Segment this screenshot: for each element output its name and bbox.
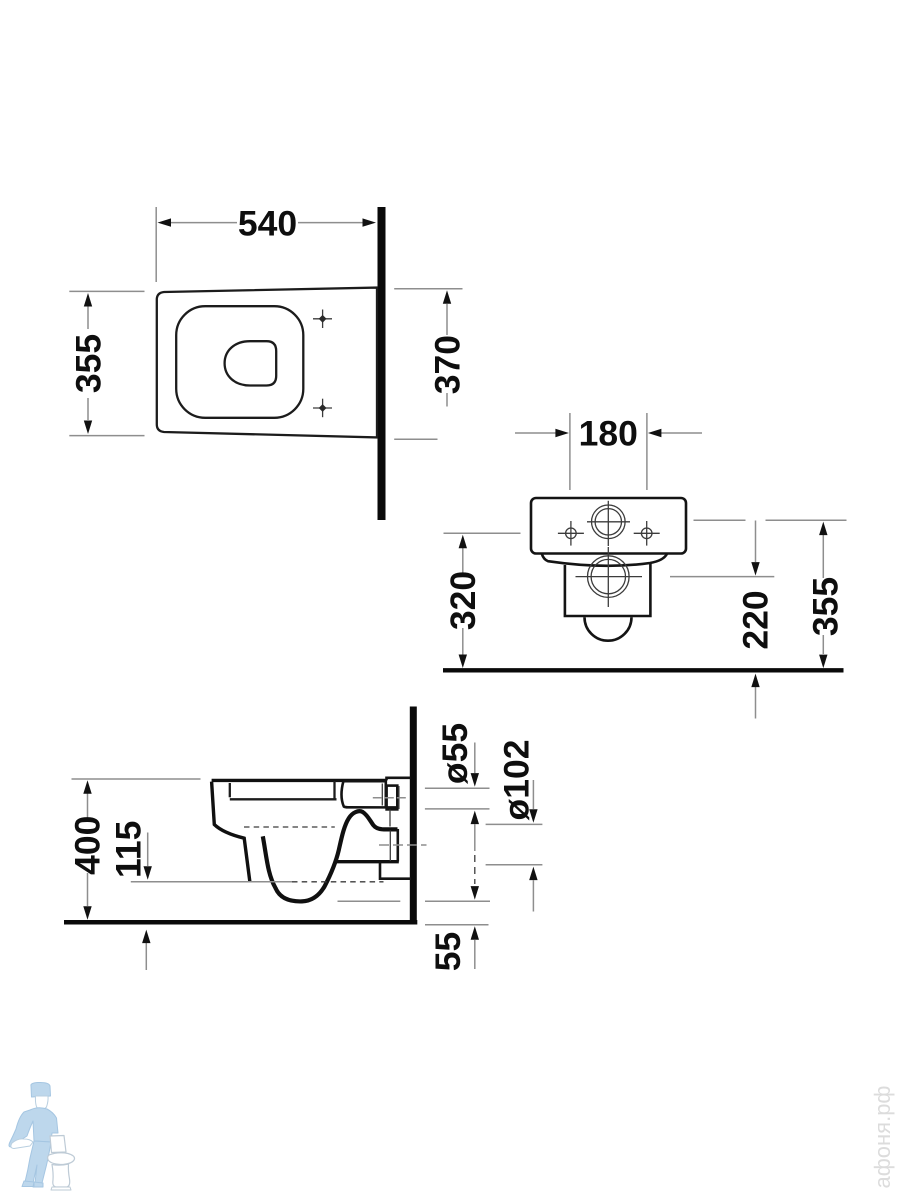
355 extension line (inlet level) [694, 519, 746, 521]
step below drain [380, 862, 411, 879]
dimension 370 extension lines [394, 288, 462, 290]
body lower arc (front) [542, 554, 667, 566]
fixing hole right (front) [634, 521, 660, 546]
dimension 320 extension line [444, 532, 521, 534]
flush block [342, 781, 398, 807]
dimension 540 line and arrows [158, 218, 377, 226]
svg-text:355: 355 [805, 577, 845, 636]
dimension 180 line and arrows [515, 429, 702, 437]
dimension 355 line and arrows [84, 293, 92, 434]
floor arrow below ground (side) [142, 930, 150, 970]
dimension 180 extension lines [569, 413, 571, 490]
body lower box (front) [565, 563, 651, 616]
front face [212, 782, 250, 882]
plumber watermark logo [9, 1082, 75, 1190]
drain centre line [379, 844, 427, 846]
dimension 55 line and arrow [471, 926, 479, 969]
svg-text:370: 370 [427, 335, 467, 394]
bowl opening (plan) [225, 341, 277, 385]
flush pipe centre line [373, 797, 406, 799]
svg-text:320: 320 [443, 571, 483, 630]
toilet outline (plan) [157, 288, 377, 438]
ground line (side) [64, 920, 417, 925]
dimension 400 line and arrows [83, 780, 91, 920]
seat top line [212, 779, 387, 782]
dimension 540 extension line left [155, 207, 157, 282]
dimension ø102 line and arrows [529, 780, 537, 912]
dimension 220 lower arrow below ground [751, 674, 759, 719]
inlet crosshair [587, 521, 630, 523]
dimension 370 line and arrow [443, 290, 451, 406]
svg-text:355: 355 [68, 334, 108, 393]
fixing hole cross top (plan) [313, 310, 332, 329]
svg-text:115: 115 [109, 821, 149, 878]
drain pipe right edge [396, 829, 399, 862]
svg-text:180: 180 [579, 413, 638, 453]
mounting top line at wall [387, 778, 411, 781]
drain outlet circle (front) [588, 556, 630, 598]
body upper box (front) [531, 498, 686, 554]
svg-text:ø55: ø55 [435, 723, 475, 784]
inner bowl and weir [263, 811, 398, 901]
flush pipe stub (ø55) [381, 784, 383, 806]
drain pipe bottom [337, 860, 399, 863]
water dashed line [244, 826, 335, 828]
dimension ø55 extension lines [425, 787, 490, 789]
fixing hole cross bottom (plan) [313, 399, 332, 418]
fixing hole left (front) [558, 521, 584, 546]
rim back joint [333, 781, 335, 799]
svg-text:400: 400 [68, 816, 108, 875]
water inlet circle (front) [592, 505, 626, 539]
svg-text:афоня.рф: афоня.рф [870, 1085, 895, 1188]
drain vertical inner thin upper [389, 810, 391, 827]
dimension 220 line upper arrow [751, 521, 759, 576]
seat outline (plan) [176, 306, 303, 418]
ground line (front) [443, 668, 844, 672]
dimension ø102 extension lines [486, 823, 543, 825]
svg-text:540: 540 [238, 204, 297, 244]
outlet crosshair [576, 576, 643, 578]
svg-text:55: 55 [428, 932, 468, 972]
ceramic bottom line 55 reference [338, 900, 401, 902]
inner rim lines [229, 783, 231, 797]
flush pipe inner line [398, 786, 400, 809]
wall line (plan) [378, 207, 386, 520]
dimension 355 extension lines left view [69, 290, 144, 292]
drain pipe inner line [389, 831, 391, 862]
drain centre reference line right [670, 576, 774, 578]
floor reference right of wall [425, 924, 489, 926]
dimension ø55 line and arrows [471, 743, 479, 900]
wall line (side) [410, 707, 417, 925]
svg-text:ø102: ø102 [497, 740, 537, 821]
seat hole line: solid then dashed [131, 881, 292, 883]
dimension 355 line (front) and arrows [819, 522, 827, 669]
dimension 320 line and arrows [459, 535, 467, 668]
drain pipe semicircle (front) [585, 617, 632, 641]
dimension 400 extension line [72, 778, 201, 780]
svg-text:220: 220 [736, 590, 776, 649]
dimension 115 line and arrow [144, 833, 152, 880]
